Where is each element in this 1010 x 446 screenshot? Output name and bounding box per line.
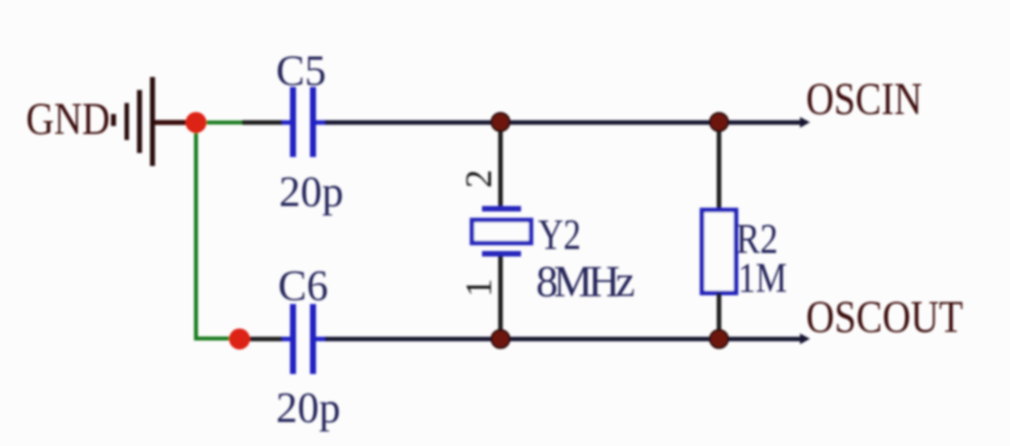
svg-text:OSCIN: OSCIN [806, 73, 922, 124]
svg-text:20p: 20p [276, 385, 341, 432]
svg-text:GND: GND [26, 94, 110, 144]
svg-text:C5: C5 [276, 48, 326, 95]
svg-text:Y2: Y2 [538, 212, 581, 259]
svg-text:2: 2 [459, 170, 500, 189]
svg-text:1M: 1M [738, 256, 787, 302]
svg-text:20p: 20p [279, 169, 344, 216]
svg-text:C6: C6 [278, 263, 328, 310]
svg-text:8MHz: 8MHz [536, 257, 635, 306]
svg-text:OSCOUT: OSCOUT [806, 291, 963, 342]
svg-text:1: 1 [459, 279, 500, 298]
